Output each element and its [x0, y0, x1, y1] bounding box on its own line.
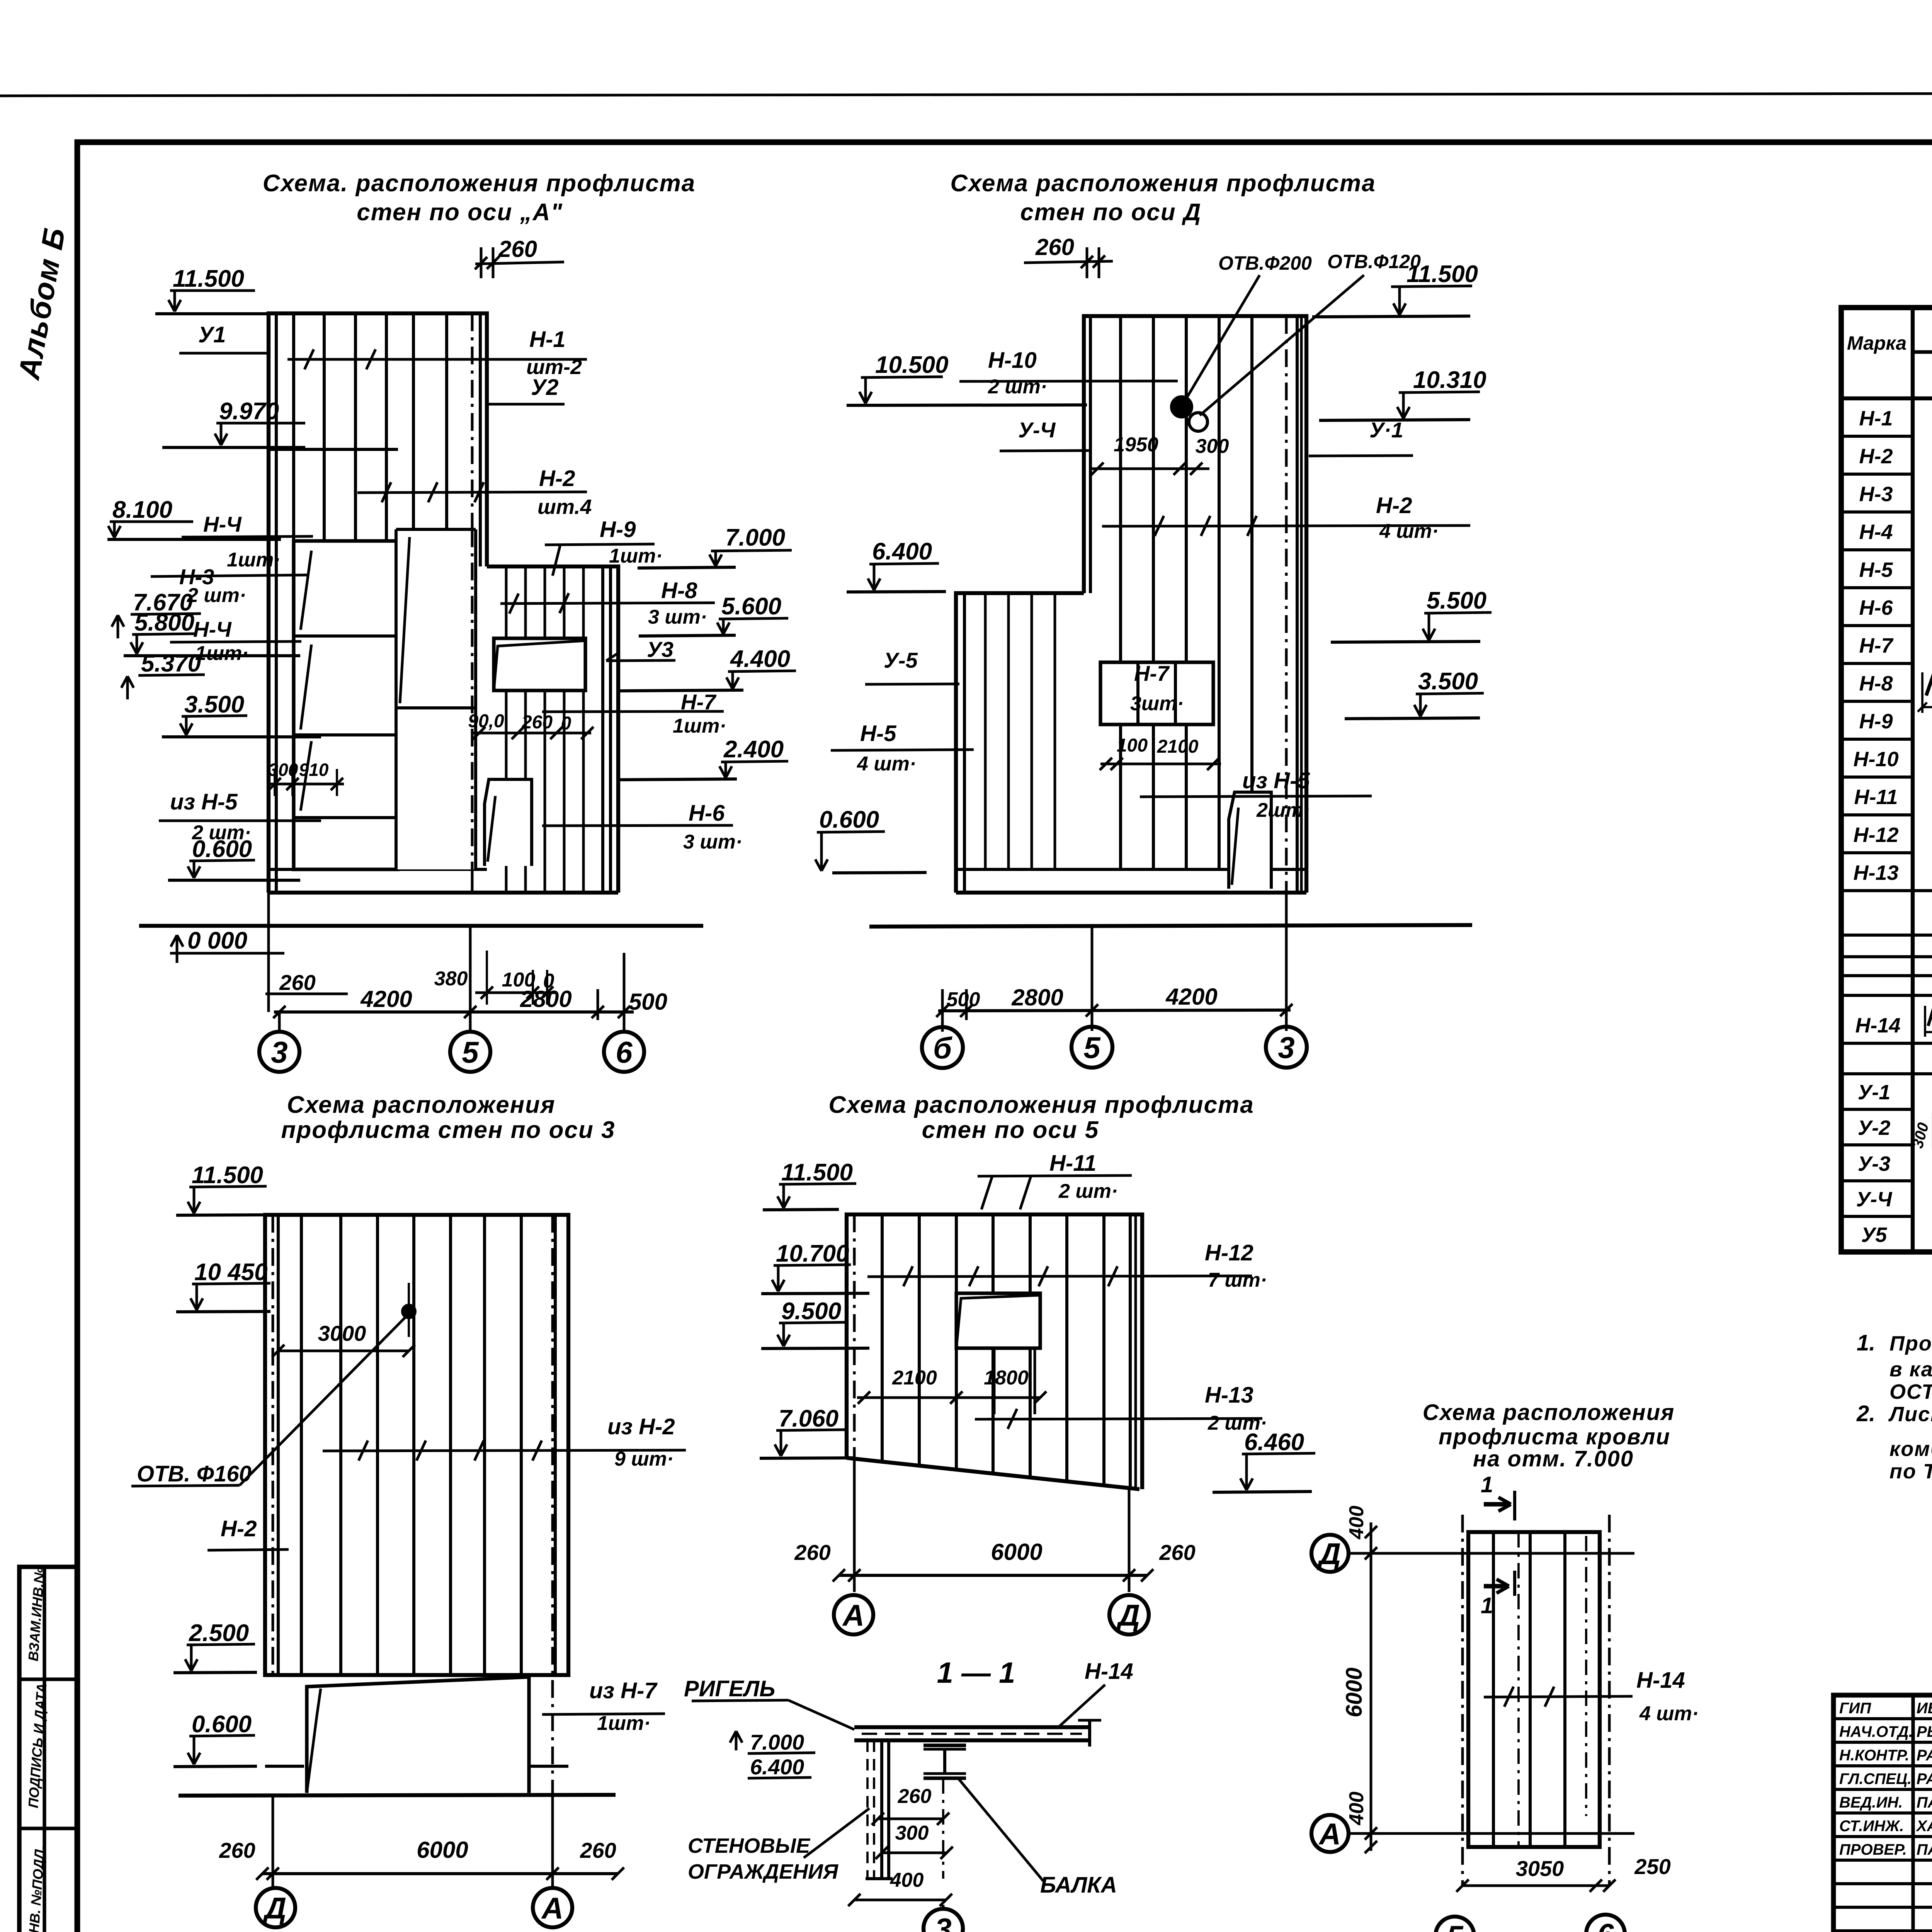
svg-text:100: 100 — [1117, 735, 1148, 756]
diagram A lower wall outline — [487, 566, 618, 893]
svg-text:Схема расположения профлиста: Схема расположения профлиста — [950, 170, 1376, 197]
svg-text:3: 3 — [935, 1912, 951, 1932]
svg-text:ВЕД.ИН.: ВЕД.ИН. — [1839, 1794, 1903, 1811]
roof axis 5 dash line — [1461, 1515, 1464, 1886]
svg-text:Н-13: Н-13 — [1853, 861, 1898, 884]
svg-text:300: 300 — [895, 1822, 929, 1844]
svg-text:4 шт·: 4 шт· — [1639, 1702, 1699, 1725]
vedomost header lines — [1911, 308, 1915, 1252]
svg-text:Н-Ч: Н-Ч — [193, 617, 232, 641]
svg-text:1800: 1800 — [984, 1367, 1029, 1389]
svg-text:260: 260 — [279, 970, 315, 995]
svg-text:6: 6 — [616, 1035, 633, 1069]
svg-text:Н-Ч: Н-Ч — [203, 512, 242, 536]
axis circle 5 roof — [1435, 1917, 1474, 1932]
svg-text:2100: 2100 — [892, 1367, 937, 1389]
svg-text:260: 260 — [794, 1540, 830, 1565]
axis circle D d3 — [256, 1888, 295, 1927]
svg-text:0.600: 0.600 — [192, 836, 252, 862]
svg-text:Н-2: Н-2 — [539, 466, 575, 491]
svg-text:1шт·: 1шт· — [227, 549, 281, 571]
svg-text:по ТУ 67- 507.-84.: по ТУ 67- 507.-84. — [1889, 1460, 1932, 1483]
diagram 5 axis dash — [853, 1214, 856, 1458]
axis circle 6 — [604, 1032, 644, 1072]
svg-text:РИГЕЛЬ: РИГЕЛЬ — [684, 1676, 775, 1701]
svg-text:У-1: У-1 — [1858, 1081, 1891, 1104]
svg-text:5: 5 — [1083, 1031, 1101, 1065]
svg-text:400: 400 — [1345, 1506, 1368, 1540]
svg-text:9 шт·: 9 шт· — [614, 1448, 673, 1470]
axis circle 3 D — [1266, 1027, 1307, 1068]
svg-text:Д: Д — [262, 1891, 286, 1925]
svg-text:Схема. расположения профлиста: Схема. расположения профлиста — [263, 170, 696, 197]
svg-text:Профилированный настил крепи: Профилированный настил крепить к прогона… — [1889, 1332, 1932, 1355]
diagram 5 ribs — [881, 1214, 884, 1461]
svg-text:Н-11: Н-11 — [1049, 1151, 1096, 1176]
svg-text:Н-8: Н-8 — [1859, 672, 1893, 695]
svg-text:5.600: 5.600 — [721, 593, 781, 620]
svg-text:7.000: 7.000 — [750, 1730, 804, 1754]
svg-text:10.700: 10.700 — [776, 1240, 849, 1267]
svg-text:Схема расположения профлиста: Схема расположения профлиста — [828, 1092, 1254, 1118]
svg-text:У-5: У-5 — [884, 648, 918, 672]
svg-text:3.500: 3.500 — [184, 691, 244, 718]
svg-text:3000: 3000 — [318, 1321, 366, 1345]
diagram 5 wall outline — [847, 1214, 1142, 1489]
axis extension lines A — [267, 893, 270, 1012]
svg-text:1шт·: 1шт· — [195, 642, 249, 665]
diagram A top band bottom (9.970) — [269, 448, 398, 451]
svg-text:стен по оси Д: стен по оси Д — [1020, 199, 1201, 226]
title block signature table — [1833, 1695, 1932, 1932]
svg-text:Н-14: Н-14 — [1855, 1014, 1900, 1037]
svg-text:ГИП: ГИП — [1839, 1700, 1871, 1717]
svg-text:У1: У1 — [198, 322, 226, 347]
diagram 5 opening — [956, 1293, 1040, 1348]
svg-text:910: 910 — [299, 760, 329, 780]
roof plan rect — [1468, 1532, 1600, 1847]
svg-text:Д: Д — [1317, 1537, 1341, 1571]
svg-text:из Н-5: из Н-5 — [170, 789, 238, 815]
svg-text:У3: У3 — [647, 637, 673, 662]
svg-text:ПАНКРАТОВА: ПАНКРАТОВА — [1917, 1841, 1932, 1858]
svg-text:4.400: 4.400 — [730, 646, 790, 672]
diagram 3 bottom field line 2.500 — [265, 1673, 568, 1677]
svg-text:в каждой волне самонарезающи: в каждой волне самонарезающими болтами п… — [1889, 1358, 1932, 1381]
diagram D ribs tall — [1119, 316, 1122, 869]
diagram D axis dash line — [1285, 316, 1288, 893]
svg-text:7 шт·: 7 шт· — [1208, 1269, 1267, 1291]
svg-text:300: 300 — [1196, 435, 1229, 457]
svg-text:ОТВ.Ф200: ОТВ.Ф200 — [1218, 252, 1312, 274]
diagram 5 bottom slant — [847, 1458, 1139, 1489]
svg-text:стен по оси 5: стен по оси 5 — [922, 1117, 1099, 1143]
svg-text:6.400: 6.400 — [750, 1755, 804, 1779]
svg-text:А: А — [842, 1598, 864, 1632]
svg-text:7.060: 7.060 — [779, 1405, 838, 1432]
svg-text:0.600: 0.600 — [819, 806, 879, 833]
svg-text:11.500: 11.500 — [781, 1159, 853, 1186]
svg-text:1 — 1: 1 — 1 — [937, 1656, 1015, 1689]
svg-text:У-Ч: У-Ч — [1018, 418, 1056, 442]
diagram A axis dash line redraw — [471, 529, 474, 893]
svg-text:Листы стенового профнастил: Листы стенового профнастила крепить межд… — [1888, 1403, 1932, 1426]
svg-text:БАЛКА: БАЛКА — [1040, 1872, 1117, 1898]
svg-text:3: 3 — [271, 1035, 287, 1069]
svg-text:6.460: 6.460 — [1244, 1429, 1304, 1456]
svg-text:2800: 2800 — [520, 986, 571, 1012]
svg-text:9.970: 9.970 — [219, 398, 279, 425]
svg-text:5.370: 5.370 — [141, 650, 201, 677]
svg-text:3шт·: 3шт· — [1130, 692, 1184, 715]
svg-text:2.500: 2.500 — [189, 1620, 249, 1646]
svg-text:11.500: 11.500 — [192, 1162, 263, 1189]
svg-text:260: 260 — [1035, 234, 1074, 260]
svg-text:У-3: У-3 — [1858, 1152, 1891, 1175]
diagram A lower wall window H-7 — [494, 638, 585, 690]
svg-text:6: 6 — [1597, 1917, 1614, 1932]
svg-text:из Н-5: из Н-5 — [1242, 768, 1310, 793]
svg-text:комбинированными заклепками: комбинированными заклепками с шагом 500 … — [1889, 1437, 1932, 1461]
svg-text:А: А — [1318, 1817, 1341, 1851]
d3 base corner marks — [265, 1765, 304, 1768]
axis circle D d5 — [1109, 1595, 1149, 1634]
section beam (balka) — [923, 1743, 966, 1747]
svg-text:Н-11: Н-11 — [1854, 786, 1898, 809]
diagram D lower panel — [1229, 792, 1271, 889]
axis circle 6 D — [922, 1027, 963, 1068]
svg-text:А: А — [541, 1891, 563, 1925]
svg-text:Н-7: Н-7 — [1134, 661, 1170, 685]
diagram A lower wall ribs — [505, 566, 508, 893]
svg-text:б: б — [933, 1031, 952, 1065]
svg-text:Д: Д — [1116, 1598, 1140, 1632]
svg-text:500: 500 — [629, 989, 667, 1015]
svg-text:260: 260 — [1159, 1540, 1195, 1565]
svg-text:ПРОВЕР.: ПРОВЕР. — [1839, 1841, 1907, 1858]
svg-text:Н-1: Н-1 — [529, 327, 565, 352]
svg-text:2 шт·: 2 шт· — [988, 376, 1047, 398]
svg-text:ОТВ. Ф160: ОТВ. Ф160 — [137, 1461, 252, 1486]
svg-text:10.310: 10.310 — [1413, 367, 1486, 393]
svg-text:4200: 4200 — [360, 986, 412, 1012]
svg-text:Н-14: Н-14 — [1636, 1668, 1685, 1693]
hole otv f160 — [403, 1305, 415, 1318]
svg-text:из Н-7: из Н-7 — [589, 1678, 658, 1703]
roof axis 6 dash line — [1608, 1515, 1611, 1886]
svg-text:Н-10: Н-10 — [1853, 748, 1898, 771]
diagram A left panel stack — [294, 541, 398, 869]
svg-text:3: 3 — [1278, 1031, 1294, 1065]
svg-text:РЫБКИНА: РЫБКИНА — [1917, 1723, 1932, 1740]
svg-text:Н-14: Н-14 — [1085, 1659, 1133, 1684]
svg-text:Н-5: Н-5 — [1859, 558, 1893, 582]
svg-text:СТ.ИНЖ.: СТ.ИНЖ. — [1839, 1818, 1904, 1835]
svg-text:6000: 6000 — [1342, 1667, 1367, 1717]
roof plan inner lines — [1492, 1532, 1495, 1847]
svg-text:4200: 4200 — [1165, 984, 1217, 1010]
svg-text:Н-2: Н-2 — [1859, 445, 1893, 468]
axis circle 6 roof — [1586, 1915, 1625, 1932]
svg-text:НАЧ.ОТД.: НАЧ.ОТД. — [1839, 1723, 1913, 1740]
diagram 3 lower band — [307, 1677, 529, 1793]
diagram A axis dash line — [471, 313, 474, 893]
svg-text:Н-2: Н-2 — [221, 1516, 257, 1541]
svg-text:5.800: 5.800 — [134, 609, 194, 636]
svg-text:1шт·: 1шт· — [609, 545, 663, 567]
svg-text:6000: 6000 — [991, 1539, 1042, 1565]
svg-text:2шт·: 2шт· — [1256, 799, 1310, 821]
svg-text:стен по оси „А": стен по оси „А" — [357, 199, 563, 226]
svg-text:6.400: 6.400 — [872, 538, 932, 565]
svg-text:1950: 1950 — [1114, 434, 1158, 456]
axis circle 5 D — [1071, 1027, 1112, 1068]
svg-text:Н-6: Н-6 — [1859, 596, 1893, 619]
svg-text:Н-13: Н-13 — [1205, 1383, 1253, 1408]
svg-text:2.: 2. — [1856, 1401, 1875, 1426]
svg-text:10 450: 10 450 — [194, 1259, 268, 1286]
svg-text:1: 1 — [1481, 1472, 1493, 1497]
svg-text:260: 260 — [219, 1838, 255, 1862]
svg-text:3 шт·: 3 шт· — [648, 606, 707, 628]
svg-text:У2: У2 — [531, 375, 559, 400]
axis circle 5 — [450, 1032, 490, 1072]
svg-text:Н-1: Н-1 — [1859, 407, 1893, 430]
svg-text:0 000: 0 000 — [187, 927, 247, 954]
svg-text:У5: У5 — [1861, 1223, 1888, 1247]
svg-text:5: 5 — [462, 1035, 479, 1069]
svg-text:300: 300 — [269, 760, 298, 780]
axis circle 3 — [259, 1032, 299, 1072]
diagram D tall wall outline — [1084, 316, 1306, 893]
svg-text:400: 400 — [890, 1869, 924, 1891]
svg-text:из Н-2: из Н-2 — [607, 1414, 675, 1439]
svg-text:Н.КОНТР.: Н.КОНТР. — [1839, 1747, 1909, 1764]
svg-text:Н-8: Н-8 — [661, 578, 697, 603]
svg-text:9.500: 9.500 — [781, 1298, 841, 1325]
svg-text:шт.4: шт.4 — [537, 495, 592, 519]
svg-text:260: 260 — [580, 1838, 616, 1862]
svg-text:Н-7: Н-7 — [1859, 634, 1894, 657]
diagram A wall bottom edge — [269, 891, 618, 895]
svg-text:У·1: У·1 — [1369, 418, 1403, 442]
svg-text:ИВАНОВА: ИВАНОВА — [1917, 1700, 1932, 1717]
svg-text:ГЛ.СПЕЦ.: ГЛ.СПЕЦ. — [1839, 1770, 1912, 1787]
diagram A right edge inner line — [479, 313, 482, 566]
section deck H-14 — [854, 1725, 1090, 1729]
svg-text:У-2: У-2 — [1858, 1116, 1891, 1139]
svg-text:Н-12: Н-12 — [1205, 1240, 1253, 1265]
diagram A wall ribs — [292, 313, 295, 869]
svg-text:2 шт·: 2 шт· — [187, 584, 246, 607]
vedomost empty section lines — [1841, 934, 1932, 937]
svg-text:4 шт·: 4 шт· — [857, 753, 916, 775]
svg-text:1шт·: 1шт· — [597, 1712, 651, 1735]
svg-text:6000: 6000 — [417, 1837, 468, 1863]
svg-text:РАШЕВСКИЙ: РАШЕВСКИЙ — [1917, 1746, 1932, 1764]
svg-text:7.000: 7.000 — [725, 524, 785, 551]
svg-text:10.500: 10.500 — [875, 352, 949, 378]
svg-text:250: 250 — [1634, 1854, 1670, 1879]
axis extension lines D — [941, 989, 944, 1032]
svg-text:1.: 1. — [1857, 1330, 1875, 1355]
svg-text:260: 260 — [521, 712, 553, 733]
svg-text:2 шт·: 2 шт· — [1058, 1180, 1118, 1202]
svg-text:ПАНКРАТОВА: ПАНКРАТОВА — [1917, 1794, 1932, 1811]
svg-text:Схема расположения: Схема расположения — [1423, 1400, 1675, 1425]
svg-text:Н-12: Н-12 — [1853, 823, 1898, 847]
svg-text:8.100: 8.100 — [112, 497, 172, 523]
diagram D ribs lower — [984, 593, 987, 869]
axis circle A d3 — [533, 1888, 572, 1927]
svg-text:5.500: 5.500 — [1427, 587, 1486, 614]
svg-text:РАШЕВСКИЙ: РАШЕВСКИЙ — [1917, 1769, 1932, 1787]
diagram A lower wall panel H-6 — [485, 779, 532, 866]
svg-text:Марка: Марка — [1847, 332, 1906, 354]
section column — [866, 1740, 869, 1879]
svg-text:СТЕНОВЫЕ: СТЕНОВЫЕ — [688, 1834, 811, 1857]
svg-text:380: 380 — [434, 968, 468, 990]
ground line D — [869, 925, 1472, 927]
diagram 3 axis dash lines — [272, 1215, 274, 1675]
svg-text:5: 5 — [1446, 1919, 1464, 1932]
diagram D right edge inner lines — [1296, 316, 1299, 893]
svg-text:0.600: 0.600 — [192, 1711, 252, 1738]
diagram A central H-5 panel column — [396, 529, 476, 869]
svg-text:Н-5: Н-5 — [860, 721, 896, 746]
diagram 3 ribs — [300, 1215, 303, 1675]
roof vertical dim line — [1370, 1522, 1372, 1851]
svg-text:Н-9: Н-9 — [600, 517, 636, 542]
left margin stamp boxes — [19, 1567, 77, 1932]
diagram D wall bottom — [956, 891, 1306, 895]
svg-text:ОСТ 34-13-016-77.: ОСТ 34-13-016-77. — [1889, 1380, 1932, 1403]
svg-text:400: 400 — [1345, 1792, 1368, 1826]
vedomost H-14 row — [1841, 1042, 1932, 1045]
ground line A — [139, 924, 703, 928]
svg-text:4 шт·: 4 шт· — [1379, 520, 1439, 543]
roof axis A line — [1349, 1832, 1634, 1835]
svg-text:2.400: 2.400 — [723, 736, 784, 763]
svg-text:1шт·: 1шт· — [673, 715, 726, 737]
diagram D lower wall outline — [956, 593, 1084, 893]
ground line d3 — [179, 1795, 616, 1796]
svg-text:ОГРАЖДЕНИЯ: ОГРАЖДЕНИЯ — [688, 1860, 839, 1883]
svg-text:Н-6: Н-6 — [689, 801, 725, 826]
svg-text:Н-3: Н-3 — [1859, 483, 1893, 506]
page top edge line — [0, 93, 1932, 96]
vedomost outer box — [1841, 308, 1932, 1252]
svg-text:У-Ч: У-Ч — [1856, 1188, 1893, 1211]
svg-text:на отм. 7.000: на отм. 7.000 — [1473, 1446, 1634, 1471]
diagram A tall wall outline — [269, 313, 487, 893]
svg-text:2800: 2800 — [1011, 985, 1063, 1010]
svg-text:11.500: 11.500 — [1406, 261, 1478, 287]
svg-text:500: 500 — [947, 988, 980, 1011]
otv holes — [1172, 397, 1192, 417]
svg-text:1: 1 — [1481, 1593, 1493, 1618]
svg-text:Н-10: Н-10 — [988, 348, 1037, 373]
svg-text:90,0: 90,0 — [468, 711, 504, 731]
svg-text:260: 260 — [898, 1785, 932, 1808]
section dashed axis below beam — [942, 1778, 944, 1879]
vedomost H-8 profile sketch — [1926, 675, 1932, 696]
svg-text:0: 0 — [561, 713, 571, 734]
diagram 3 wall outline — [265, 1215, 568, 1675]
svg-text:Схема расположения: Схема расположения — [287, 1092, 555, 1118]
svg-text:260: 260 — [498, 236, 537, 262]
axis circle 3 sec — [923, 1909, 963, 1932]
svg-text:3 шт·: 3 шт· — [683, 831, 742, 853]
svg-text:11.500: 11.500 — [173, 265, 244, 292]
svg-text:Н-4: Н-4 — [1859, 520, 1893, 544]
svg-text:2100: 2100 — [1157, 736, 1199, 757]
roof axis D line — [1349, 1552, 1634, 1555]
svg-text:ХАИМОВА-МАЛЬКОВА: ХАИМОВА-МАЛЬКОВА — [1916, 1818, 1932, 1835]
diagram D window H-7 — [1100, 662, 1213, 724]
svg-text:профлиста стен по оси 3: профлиста стен по оси 3 — [281, 1117, 615, 1143]
axis circle A d5 — [834, 1595, 873, 1634]
svg-text:3.500: 3.500 — [1418, 668, 1478, 695]
svg-text:Н-2: Н-2 — [1376, 493, 1412, 518]
svg-text:3050: 3050 — [1516, 1856, 1564, 1881]
svg-text:профлиста кровли: профлиста кровли — [1439, 1424, 1670, 1449]
svg-text:Н-9: Н-9 — [1859, 710, 1893, 733]
roof inner section mark — [1484, 1584, 1505, 1588]
